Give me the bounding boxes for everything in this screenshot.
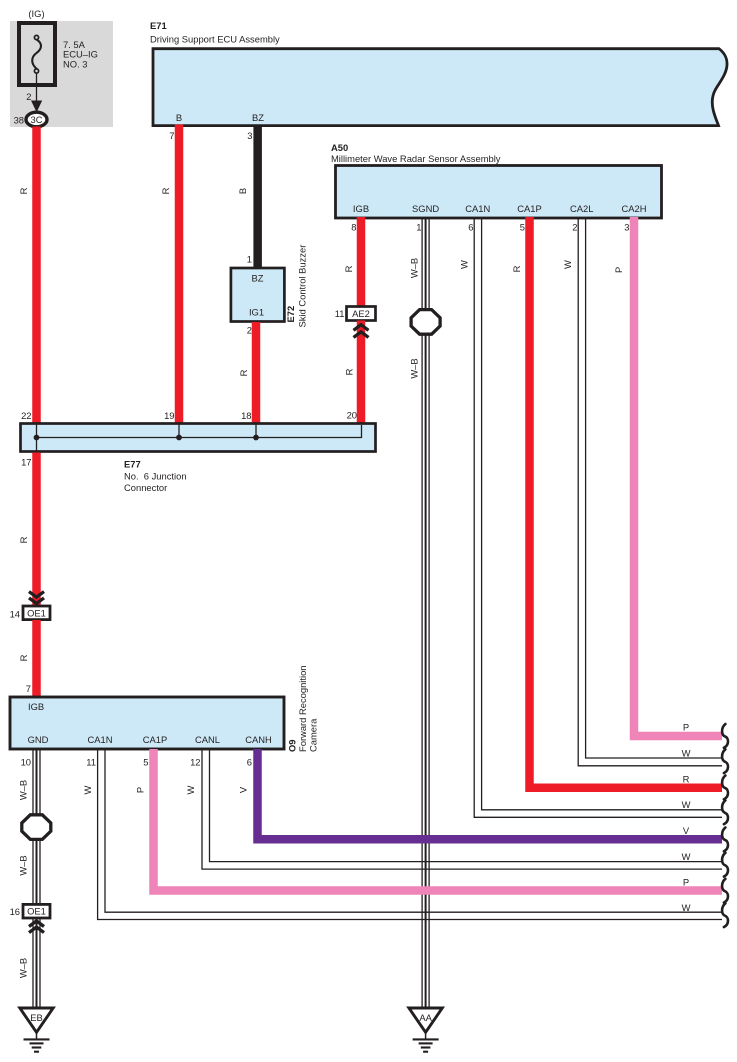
pin 3 label [247,130,252,141]
wire B E71 BZ to buzzer pin 1 [253,125,262,269]
svg-text:R: R [18,187,29,194]
pin 19 label [164,410,174,421]
svg-text:20: 20 [347,410,357,421]
pin CA1P label [143,734,168,745]
svg-text:No. 6 Junction: No. 6 Junction [124,471,187,482]
svg-text:38: 38 [14,115,24,126]
E77 internal stub pin 19 [178,425,180,438]
pin 5 label [520,222,525,233]
label W-B [18,855,29,875]
svg-text:R: R [511,265,522,272]
label A50 [331,142,348,153]
svg-text:W: W [459,260,470,269]
label R [344,368,355,375]
pin CA1N label [465,203,490,214]
label E72 [285,306,296,323]
label W right edge [682,902,691,913]
svg-text:V: V [238,786,249,793]
ECU E71 box [153,49,727,126]
splice octagon SGND [411,310,440,335]
label W right edge [682,799,691,810]
label P right edge [683,877,689,888]
label W-B [18,958,29,978]
svg-text:14: 14 [10,609,20,620]
label V [238,786,249,793]
fuse ECU-IG NO.3 [19,23,55,85]
label Millimeter Wave Radar Sensor Assembly [331,153,501,164]
pin B label [176,112,182,123]
pin 11 label [335,308,345,319]
label P [135,787,146,793]
svg-text:OE1: OE1 [27,906,46,917]
label BZ [252,273,264,284]
wire R buzzer pin 2 to E77 pin 18 [252,322,261,423]
E77 junction dot pin 18 [253,435,259,441]
svg-text:W: W [682,748,691,759]
svg-text:CA2H: CA2H [621,203,646,214]
label IG1 [249,307,264,318]
svg-text:6: 6 [468,222,473,233]
pin 6 label [247,757,252,768]
label P right edge [683,722,689,733]
radar A50 box [336,166,662,219]
wire R radar IGB to AE2 [357,217,366,307]
svg-text:11: 11 [86,757,96,768]
pin 1 label [416,222,421,233]
pin 3 label [624,222,629,233]
pin 2 label [572,222,577,233]
wire R AE2 to E77 pin 20 [357,321,366,424]
connector OE1 (14) [23,606,50,620]
wire R radar CA1P to right edge [530,217,723,788]
junction connector E77 box [21,424,376,452]
label W-B [409,358,420,378]
wire R fuse 3C to E77 pin 22 [32,127,41,424]
fuse block gray background [10,21,113,127]
svg-text:W: W [82,785,93,794]
wire P radar CA2H to right edge [634,217,722,736]
svg-text:R: R [160,187,171,194]
pin 12 label [190,757,200,768]
label W [82,785,93,794]
splice octagon GND [22,815,51,840]
svg-text:CA1P: CA1P [517,203,542,214]
svg-text:W–B: W–B [18,855,29,875]
wire W camera CA1N with corner [98,749,722,920]
svg-text:CANL: CANL [195,734,220,745]
label 7.5A ECU-IG NO.3 [63,39,98,69]
svg-text:E71: E71 [150,20,167,31]
svg-text:E72: E72 [285,306,296,323]
break symbol W wire [722,749,728,773]
wire fuse to connector 3C [36,74,38,103]
break symbol W wire [722,800,728,824]
label R [160,187,171,194]
svg-text:CA2L: CA2L [570,203,593,214]
svg-text:Millimeter Wave Radar Sensor A: Millimeter Wave Radar Sensor Assembly [331,153,501,164]
pin 10 label [21,757,31,768]
label W-B [409,258,420,278]
pin IGB label [28,701,44,712]
pin 6 label [468,222,473,233]
E77 internal pass-through pin 22-17 [36,425,38,451]
connector AE2 [347,307,376,321]
pin GND label [28,734,49,745]
pin BZ label [252,112,264,123]
break symbol P wire [722,879,728,903]
svg-text:P: P [135,787,146,793]
svg-text:2: 2 [26,91,31,102]
break symbol P wire [722,724,728,748]
label Forward Recognition Camera [297,666,319,753]
label Skid Control Buzzer [297,245,308,328]
pin SGND label [412,203,439,214]
ground AA [409,1008,442,1052]
E77 junction dot pin 22 [34,435,40,441]
wire R E77 pin 17 to OE1 [32,453,41,606]
connector OE1 (16) [23,904,50,918]
wire W-B radar SGND vertical [422,217,429,1008]
svg-text:R: R [18,654,29,661]
svg-text:11: 11 [335,308,345,319]
svg-text:SGND: SGND [412,203,439,214]
pin 16 label [10,906,20,917]
pin CANL label [195,734,220,745]
svg-text:W–B: W–B [409,258,420,278]
label B [237,188,248,194]
svg-text:3C: 3C [31,114,43,125]
label R [238,369,249,376]
svg-text:P: P [683,722,689,733]
svg-text:CANH: CANH [245,734,272,745]
svg-text:2: 2 [572,222,577,233]
buzzer E72 box [231,268,285,322]
pin 7 label [169,130,174,141]
pin 7 label [26,683,31,694]
break symbol R wire [722,776,728,800]
ground EB [20,1008,53,1052]
svg-text:7: 7 [26,683,31,694]
pin 8 label [351,222,356,233]
svg-text:BZ: BZ [252,112,264,123]
svg-text:6: 6 [247,757,252,768]
svg-text:3: 3 [247,130,252,141]
svg-text:O9: O9 [287,739,298,752]
svg-text:P: P [683,877,689,888]
pin 22 label [21,410,31,421]
pin 11 label [86,757,96,768]
label E77 [124,459,141,470]
svg-text:Skid Control Buzzer: Skid Control Buzzer [297,245,308,328]
label W right edge [682,748,691,759]
pin 5 label [143,757,148,768]
svg-text:22: 22 [21,410,31,421]
svg-text:CA1P: CA1P [143,734,168,745]
label W [562,260,573,269]
label (IG) [28,8,44,19]
wire W radar CA1N with corner [474,217,722,817]
svg-text:A50: A50 [331,142,348,153]
svg-text:Forward Recognition: Forward Recognition [297,666,308,753]
label R [343,265,354,272]
svg-text:17: 17 [21,457,31,468]
svg-text:18: 18 [241,410,251,421]
svg-text:2: 2 [247,325,252,336]
svg-text:Driving Support ECU Assembly: Driving Support ECU Assembly [150,34,280,45]
label V right edge [683,825,690,836]
svg-text:GND: GND [28,734,49,745]
svg-text:3: 3 [624,222,629,233]
wire V camera CANH to right edge [258,749,723,839]
svg-text:IGB: IGB [28,701,44,712]
svg-text:E77: E77 [124,459,141,470]
svg-text:AA: AA [419,1012,432,1023]
label R [18,654,29,661]
arrow into connector 3C [31,101,42,113]
camera O9 box [10,697,284,749]
label E71 [150,20,167,31]
pin 2 label [247,325,252,336]
svg-text:B: B [176,112,182,123]
svg-text:V: V [683,825,690,836]
E77 internal bus bar [37,425,362,438]
wire W-B camera GND vertical [33,749,40,1008]
wire W radar CA2L with corner [578,217,722,766]
svg-text:W: W [185,785,196,794]
label No. 6 Junction Connector [124,471,187,494]
pin CA2L label [570,203,593,214]
label O9 [287,739,298,752]
pin IGB label [353,203,369,214]
svg-text:1: 1 [247,254,252,265]
connector AE2 chevrons [354,325,369,338]
label R right edge [683,774,690,785]
E77 internal stub pin 18 [255,425,257,438]
wire R OE1 to camera pin 7 [32,620,41,696]
wire W camera CANL with corner [202,749,722,869]
svg-text:W: W [562,260,573,269]
connector OE1 chevrons (16) [29,921,44,933]
svg-text:CA1N: CA1N [87,734,112,745]
svg-text:B: B [237,188,248,194]
pin 18 label [241,410,251,421]
svg-text:Camera: Camera [308,718,319,752]
svg-text:IGB: IGB [353,203,369,214]
E77 junction dot pin 19 [176,435,182,441]
svg-text:8: 8 [351,222,356,233]
svg-text:7: 7 [169,130,174,141]
break symbol V wire [722,828,728,852]
svg-text:IG1: IG1 [249,307,264,318]
svg-text:W: W [682,902,691,913]
svg-text:NO. 3: NO. 3 [63,58,88,69]
pin 2 label [26,91,31,102]
pin CANH label [245,734,272,745]
label Driving Support ECU Assembly [150,34,280,45]
pin 14 label [10,609,20,620]
svg-text:EB: EB [30,1012,43,1023]
svg-text:R: R [238,369,249,376]
svg-text:AE2: AE2 [352,308,370,319]
svg-text:16: 16 [10,906,20,917]
pin 20 label [347,410,357,421]
svg-text:5: 5 [520,222,525,233]
svg-text:Connector: Connector [124,482,167,493]
svg-text:OE1: OE1 [27,608,46,619]
label P [613,267,624,273]
pin CA1N label [87,734,112,745]
svg-text:19: 19 [164,410,174,421]
wire R E71 B to E77 pin 19 [175,125,184,424]
label W-B [18,780,29,800]
label R [18,536,29,543]
svg-text:W–B: W–B [409,358,420,378]
svg-text:5: 5 [143,757,148,768]
svg-text:W–B: W–B [18,958,29,978]
pin 1 label [247,254,252,265]
wire P camera CA1P to right edge [154,749,723,891]
svg-text:W: W [682,799,691,810]
svg-text:W: W [682,851,691,862]
svg-text:(IG): (IG) [28,8,44,19]
svg-text:10: 10 [21,757,31,768]
label W right edge [682,851,691,862]
pin CA1P label [517,203,542,214]
pin 38 label [14,115,24,126]
svg-text:W–B: W–B [18,780,29,800]
svg-text:BZ: BZ [252,273,264,284]
svg-text:R: R [343,265,354,272]
label W [459,260,470,269]
svg-text:CA1N: CA1N [465,203,490,214]
svg-text:1: 1 [416,222,421,233]
connector OE1 chevrons (14) [29,592,44,604]
pin 17 label [21,457,31,468]
break symbol W wire [722,853,728,877]
svg-text:R: R [683,774,690,785]
svg-text:R: R [344,368,355,375]
label W [185,785,196,794]
svg-text:12: 12 [190,757,200,768]
svg-text:R: R [18,536,29,543]
svg-text:P: P [613,267,624,273]
break symbol W wire [722,903,728,927]
label R [18,187,29,194]
pin CA2H label [621,203,646,214]
connector 3C oval [26,112,47,127]
label R [511,265,522,272]
